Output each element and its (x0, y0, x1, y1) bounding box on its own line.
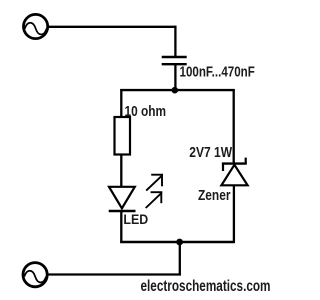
wire vertical into capacitor (174, 26, 176, 57)
svg-text:electroschematics.com: electroschematics.com (141, 278, 271, 295)
LED D1 cathode bar (109, 210, 136, 212)
svg-text:LED: LED (123, 211, 148, 227)
svg-text:100nF...470nF: 100nF...470nF (180, 64, 255, 81)
wire left branch down to resistor (120, 89, 122, 118)
node top junction (172, 87, 179, 94)
zener diode D2 triangle (221, 165, 247, 186)
AC source V2 (bottom left) (23, 263, 47, 287)
wire top rail from V1 to capacitor corner (48, 26, 177, 28)
wire capacitor to top junction (174, 64, 176, 91)
LED emission arrow upper (146, 175, 163, 191)
wire right branch down to zener (233, 89, 235, 164)
node bottom junction (176, 239, 183, 246)
wire junction down to return rail (179, 242, 181, 276)
wire bottom rail (120, 241, 235, 243)
svg-text:2V7 1W: 2V7 1W (189, 144, 232, 161)
resistor R1 (115, 117, 131, 155)
wire bottom return rail to V2 (48, 273, 182, 275)
capacitor C1 (162, 57, 187, 64)
wire zener to bottom rail (233, 185, 235, 243)
wire resistor to LED (120, 155, 122, 188)
wire LED to bottom rail (120, 211, 122, 243)
LED emission arrow lower (146, 192, 163, 208)
AC source V1 (top left) (23, 14, 47, 38)
zener diode D2 cathode bar (222, 158, 247, 171)
wire top distribution rail (120, 89, 235, 91)
svg-text:Zener: Zener (198, 187, 231, 204)
LED D1 triangle (109, 187, 135, 209)
